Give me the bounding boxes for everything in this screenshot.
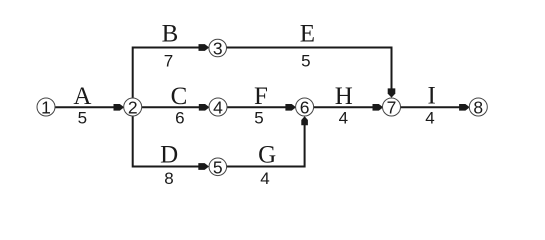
svg-text:7: 7 xyxy=(164,51,173,70)
svg-text:D: D xyxy=(160,141,178,168)
svg-text:5: 5 xyxy=(254,108,263,127)
wire G (node 5 right, then up to node 6) xyxy=(227,125,305,167)
svg-text:G: G xyxy=(258,141,276,168)
arrowhead F xyxy=(285,104,296,111)
arrowhead E xyxy=(388,88,396,97)
svg-text:H: H xyxy=(335,83,353,110)
label C xyxy=(171,83,188,110)
svg-text:5: 5 xyxy=(78,108,87,127)
arrowhead I xyxy=(459,104,470,111)
wire F (node 4 to node 6) xyxy=(227,106,287,108)
node 1 xyxy=(37,97,55,117)
arrowhead B xyxy=(199,44,210,51)
value 4 of H xyxy=(339,108,348,127)
svg-text:A: A xyxy=(73,83,91,110)
arrowhead G xyxy=(301,116,308,125)
wire H (node 6 to node 7) xyxy=(314,106,374,108)
node 3 xyxy=(209,39,227,59)
wire I (node 7 to node 8) xyxy=(400,106,460,108)
value 4 of I xyxy=(425,108,434,127)
arrowhead C xyxy=(199,104,210,111)
svg-text:B: B xyxy=(162,21,179,48)
label I xyxy=(428,82,436,109)
arrowhead A xyxy=(114,104,125,111)
svg-text:3: 3 xyxy=(213,39,223,59)
node 7 xyxy=(383,97,401,117)
node 2 xyxy=(124,97,142,117)
label G xyxy=(258,141,276,168)
node 4 xyxy=(209,97,227,117)
svg-text:I: I xyxy=(428,82,436,109)
value 5 of E xyxy=(301,51,310,70)
value 5 of F xyxy=(254,108,263,127)
svg-text:8: 8 xyxy=(164,169,173,188)
arrowhead D xyxy=(198,163,209,170)
svg-text:5: 5 xyxy=(213,157,223,177)
node 6 xyxy=(296,97,314,117)
node 8 xyxy=(469,97,487,117)
label F xyxy=(254,83,268,110)
svg-text:C: C xyxy=(171,83,188,110)
svg-text:4: 4 xyxy=(213,97,223,117)
svg-text:6: 6 xyxy=(300,97,310,117)
svg-text:2: 2 xyxy=(128,97,138,117)
svg-text:4: 4 xyxy=(260,169,269,188)
label B xyxy=(162,21,179,48)
label E xyxy=(300,21,315,48)
wire E (node 3 right, then down to node 7) xyxy=(227,48,392,90)
node 5 xyxy=(209,157,227,177)
label H xyxy=(335,83,353,110)
svg-text:F: F xyxy=(254,83,268,110)
svg-text:8: 8 xyxy=(473,97,483,117)
svg-text:1: 1 xyxy=(41,97,51,117)
wire A (node 1 to node 2) xyxy=(55,106,115,108)
wire B (node 2 up, then right to node 3) xyxy=(133,48,200,99)
arrowhead H xyxy=(373,104,384,111)
wire C (node 2 to node 4) xyxy=(142,106,201,108)
label A xyxy=(73,83,91,110)
svg-text:4: 4 xyxy=(425,108,434,127)
value 8 of D xyxy=(164,169,173,188)
svg-text:7: 7 xyxy=(387,97,397,117)
wire D (node 2 down, then right to node 5) xyxy=(133,116,200,167)
value 6 of C xyxy=(175,108,184,127)
label D xyxy=(160,141,178,168)
value 7 of B xyxy=(164,51,173,70)
value 4 of G xyxy=(260,169,269,188)
svg-text:E: E xyxy=(300,21,315,48)
svg-text:4: 4 xyxy=(339,108,348,127)
svg-text:5: 5 xyxy=(301,51,310,70)
value 5 of A xyxy=(78,108,87,127)
svg-text:6: 6 xyxy=(175,108,184,127)
